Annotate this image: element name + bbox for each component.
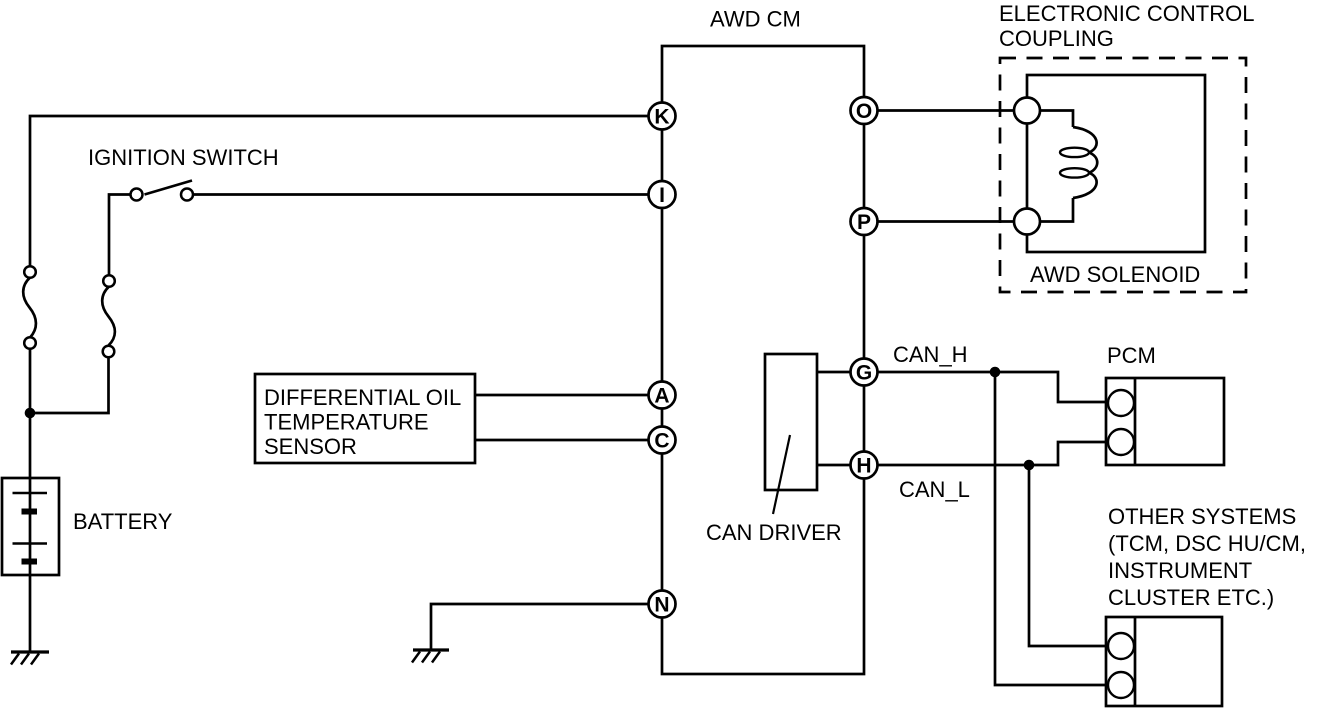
ignition switch contact left bbox=[131, 189, 143, 201]
solenoid coil turns bbox=[1073, 127, 1097, 198]
dashed box ELECTRONIC CONTROL COUPLING bbox=[1000, 58, 1246, 292]
PCM pin upper bbox=[1108, 390, 1134, 416]
wire terminal N to ground bbox=[431, 604, 649, 650]
ignition switch contact right bbox=[181, 189, 193, 201]
terminal O bbox=[851, 97, 878, 124]
svg-text:CAN DRIVER: CAN DRIVER bbox=[706, 520, 842, 545]
svg-text:CAN_L: CAN_L bbox=[899, 477, 970, 502]
battery plate thick 2 bbox=[22, 559, 38, 565]
wire CAN driver to terminal H bbox=[817, 464, 851, 467]
coupling terminal lower bbox=[1014, 209, 1040, 235]
svg-text:COUPLING: COUPLING bbox=[999, 26, 1114, 51]
battery plates bbox=[13, 493, 48, 544]
svg-text:SENSOR: SENSOR bbox=[264, 434, 357, 459]
svg-text:O: O bbox=[856, 100, 872, 123]
PCM pin lower bbox=[1108, 429, 1134, 455]
wire CAN_H branch to other systems bbox=[995, 372, 1106, 685]
wire CAN_H terminal G to PCM bbox=[878, 372, 1107, 402]
PCM connector box bbox=[1106, 378, 1224, 465]
wire terminal O to coupling bbox=[878, 109, 1015, 112]
svg-text:ELECTRONIC CONTROL: ELECTRONIC CONTROL bbox=[999, 1, 1254, 26]
svg-text:P: P bbox=[857, 211, 871, 234]
svg-text:BATTERY: BATTERY bbox=[73, 509, 173, 534]
CAN driver box bbox=[765, 354, 817, 490]
solenoid coil leads bbox=[1040, 111, 1073, 222]
terminal N bbox=[649, 591, 676, 618]
svg-text:CAN_H: CAN_H bbox=[893, 342, 968, 367]
svg-text:INSTRUMENT: INSTRUMENT bbox=[1108, 558, 1252, 583]
svg-text:AWD SOLENOID: AWD SOLENOID bbox=[1030, 262, 1200, 287]
battery box bbox=[2, 478, 59, 575]
wire switch feed bbox=[109, 195, 131, 276]
wire ignition switch to terminal I bbox=[194, 193, 649, 196]
terminal A bbox=[649, 382, 676, 409]
svg-text:K: K bbox=[654, 106, 669, 129]
fuse terminal bottom (ignition) bbox=[103, 346, 115, 358]
wire CAN_L terminal H to PCM bbox=[878, 442, 1107, 465]
junction dot CAN_H bbox=[990, 367, 1001, 378]
terminal P bbox=[851, 208, 878, 235]
terminal I bbox=[649, 181, 676, 208]
svg-text:I: I bbox=[659, 184, 665, 207]
terminal H bbox=[851, 452, 878, 479]
other systems pin upper bbox=[1108, 633, 1134, 659]
other systems pin lower bbox=[1108, 672, 1134, 698]
CAN driver leader line bbox=[773, 435, 790, 514]
fuse element (ignition side) bbox=[102, 287, 115, 346]
solenoid coil loop 2 bbox=[1060, 168, 1089, 177]
terminal K bbox=[649, 103, 676, 130]
wire fuse to junction to battery to ground bbox=[29, 349, 32, 653]
ground (AWD CM terminal N) bbox=[412, 650, 449, 663]
wire sensor to terminal A bbox=[475, 394, 649, 397]
wire sensor to terminal C bbox=[475, 439, 649, 442]
terminal G bbox=[851, 359, 878, 386]
junction dot CAN_L bbox=[1024, 460, 1035, 471]
solenoid coil loop 1 bbox=[1060, 148, 1089, 157]
svg-text:AWD CM: AWD CM bbox=[710, 7, 801, 32]
fuse terminal top (ignition) bbox=[103, 275, 115, 287]
svg-text:A: A bbox=[654, 385, 669, 408]
wire battery B+ to terminal K bbox=[30, 116, 649, 267]
ground (battery) bbox=[11, 652, 49, 665]
svg-text:OTHER SYSTEMS: OTHER SYSTEMS bbox=[1108, 504, 1296, 529]
svg-text:PCM: PCM bbox=[1107, 343, 1156, 368]
svg-text:TEMPERATURE: TEMPERATURE bbox=[264, 410, 429, 435]
wire CAN_L branch to other systems bbox=[1029, 465, 1106, 646]
terminal C bbox=[649, 427, 676, 454]
wire CAN driver to terminal G bbox=[817, 371, 851, 374]
svg-text:CLUSTER ETC.): CLUSTER ETC.) bbox=[1108, 585, 1274, 610]
svg-text:H: H bbox=[856, 455, 871, 478]
svg-text:(TCM, DSC HU/CM,: (TCM, DSC HU/CM, bbox=[1108, 531, 1306, 556]
fuse terminal top (battery) bbox=[24, 266, 36, 278]
PCM connector divider bbox=[1134, 378, 1137, 465]
svg-text:G: G bbox=[856, 362, 872, 385]
other systems connector divider bbox=[1134, 617, 1137, 706]
fuse terminal bottom (battery) bbox=[24, 337, 36, 349]
ignition switch blade bbox=[145, 181, 193, 195]
AWD solenoid box bbox=[1027, 75, 1205, 252]
other systems connector box bbox=[1106, 617, 1222, 706]
svg-text:DIFFERENTIAL OIL: DIFFERENTIAL OIL bbox=[264, 385, 461, 410]
svg-text:N: N bbox=[654, 594, 669, 617]
wire terminal P to coupling bbox=[878, 220, 1015, 223]
wire ignition fuse to junction node bbox=[30, 357, 109, 413]
fuse element (battery side) bbox=[23, 278, 36, 338]
battery plate thick 1 bbox=[22, 509, 38, 515]
junction dot battery/ignition feed bbox=[25, 408, 36, 419]
differential oil temperature sensor box bbox=[255, 374, 475, 463]
svg-text:C: C bbox=[654, 430, 669, 453]
AWD CM module box bbox=[662, 46, 864, 674]
svg-text:IGNITION SWITCH: IGNITION SWITCH bbox=[88, 145, 279, 170]
coupling terminal upper bbox=[1014, 98, 1040, 124]
